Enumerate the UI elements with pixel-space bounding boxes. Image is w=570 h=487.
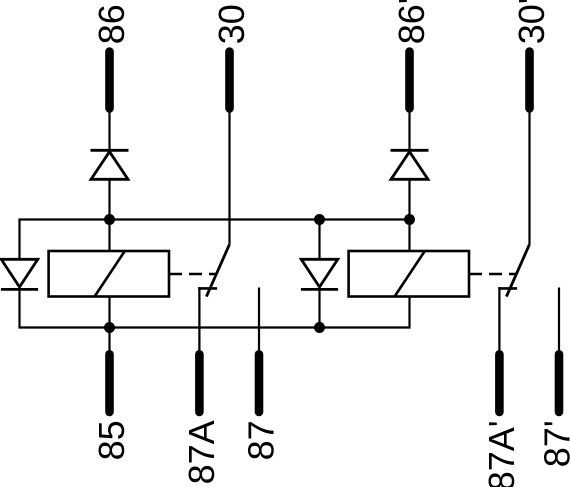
wire D1 to top bus <box>108 179 110 219</box>
junction node top bus / D3 <box>314 214 325 225</box>
svg-text:30': 30' <box>511 0 552 44</box>
wire 86' to D4 <box>408 110 410 150</box>
wire 86 to D1 <box>108 110 110 150</box>
svg-text:87A: 87A <box>181 420 222 484</box>
contact 87A' seat <box>498 287 517 290</box>
top bus wire <box>20 220 410 260</box>
wire coil K1 to bottom bus <box>108 297 110 328</box>
terminal pin 86' <box>405 52 414 109</box>
wire top bus to coil K2 <box>408 220 410 252</box>
terminal pin 87' <box>555 354 564 412</box>
terminal pin 87 <box>255 354 264 412</box>
relay coil K1 <box>49 251 169 297</box>
wire 87A to terminal <box>198 287 200 356</box>
wire top bus to coil K1 <box>108 220 110 252</box>
bottom bus wire <box>20 289 410 327</box>
junction node bottom bus / 85 <box>104 322 115 333</box>
diode D3 <box>301 259 338 289</box>
contact 87A seat <box>198 287 217 290</box>
relay coil K2 <box>349 251 469 297</box>
svg-text:87: 87 <box>241 420 282 460</box>
junction node top bus / coil K2 <box>404 214 415 225</box>
terminal pin 30' <box>525 52 534 109</box>
terminal pin 30 <box>225 52 234 109</box>
svg-text:86': 86' <box>391 0 432 44</box>
wire 87' <box>558 288 560 357</box>
terminal pin 86 <box>105 52 114 109</box>
mechanical link K1 (dashed) <box>169 273 216 276</box>
wire 30 to switch pivot <box>228 110 230 244</box>
svg-text:86: 86 <box>91 4 132 44</box>
terminal pin 87A' <box>495 354 504 412</box>
junction node bottom bus / D3 <box>314 322 325 333</box>
diode D1 <box>91 150 129 179</box>
wire 87A' to terminal <box>498 287 500 356</box>
svg-text:87A': 87A' <box>481 420 522 487</box>
terminal pin 87A <box>195 354 204 412</box>
wire D3 to bottom bus <box>318 289 320 327</box>
wire 87 <box>258 288 260 357</box>
mechanical link K2 (dashed) <box>469 273 516 276</box>
wire 85 <box>108 328 110 353</box>
svg-text:85: 85 <box>91 420 132 460</box>
wire top bus to D3 <box>318 220 320 260</box>
terminal pin 85 <box>105 354 114 412</box>
wire 30' to switch pivot <box>528 110 530 244</box>
switch armature K2 <box>506 244 529 296</box>
svg-text:87': 87' <box>537 420 570 467</box>
diode D4 <box>391 150 429 179</box>
diode D2 <box>1 259 38 289</box>
svg-text:30: 30 <box>211 4 252 44</box>
switch armature K1 <box>206 244 229 296</box>
wire D4 to top bus <box>408 179 410 219</box>
junction node top bus / coil K1 <box>104 214 115 225</box>
